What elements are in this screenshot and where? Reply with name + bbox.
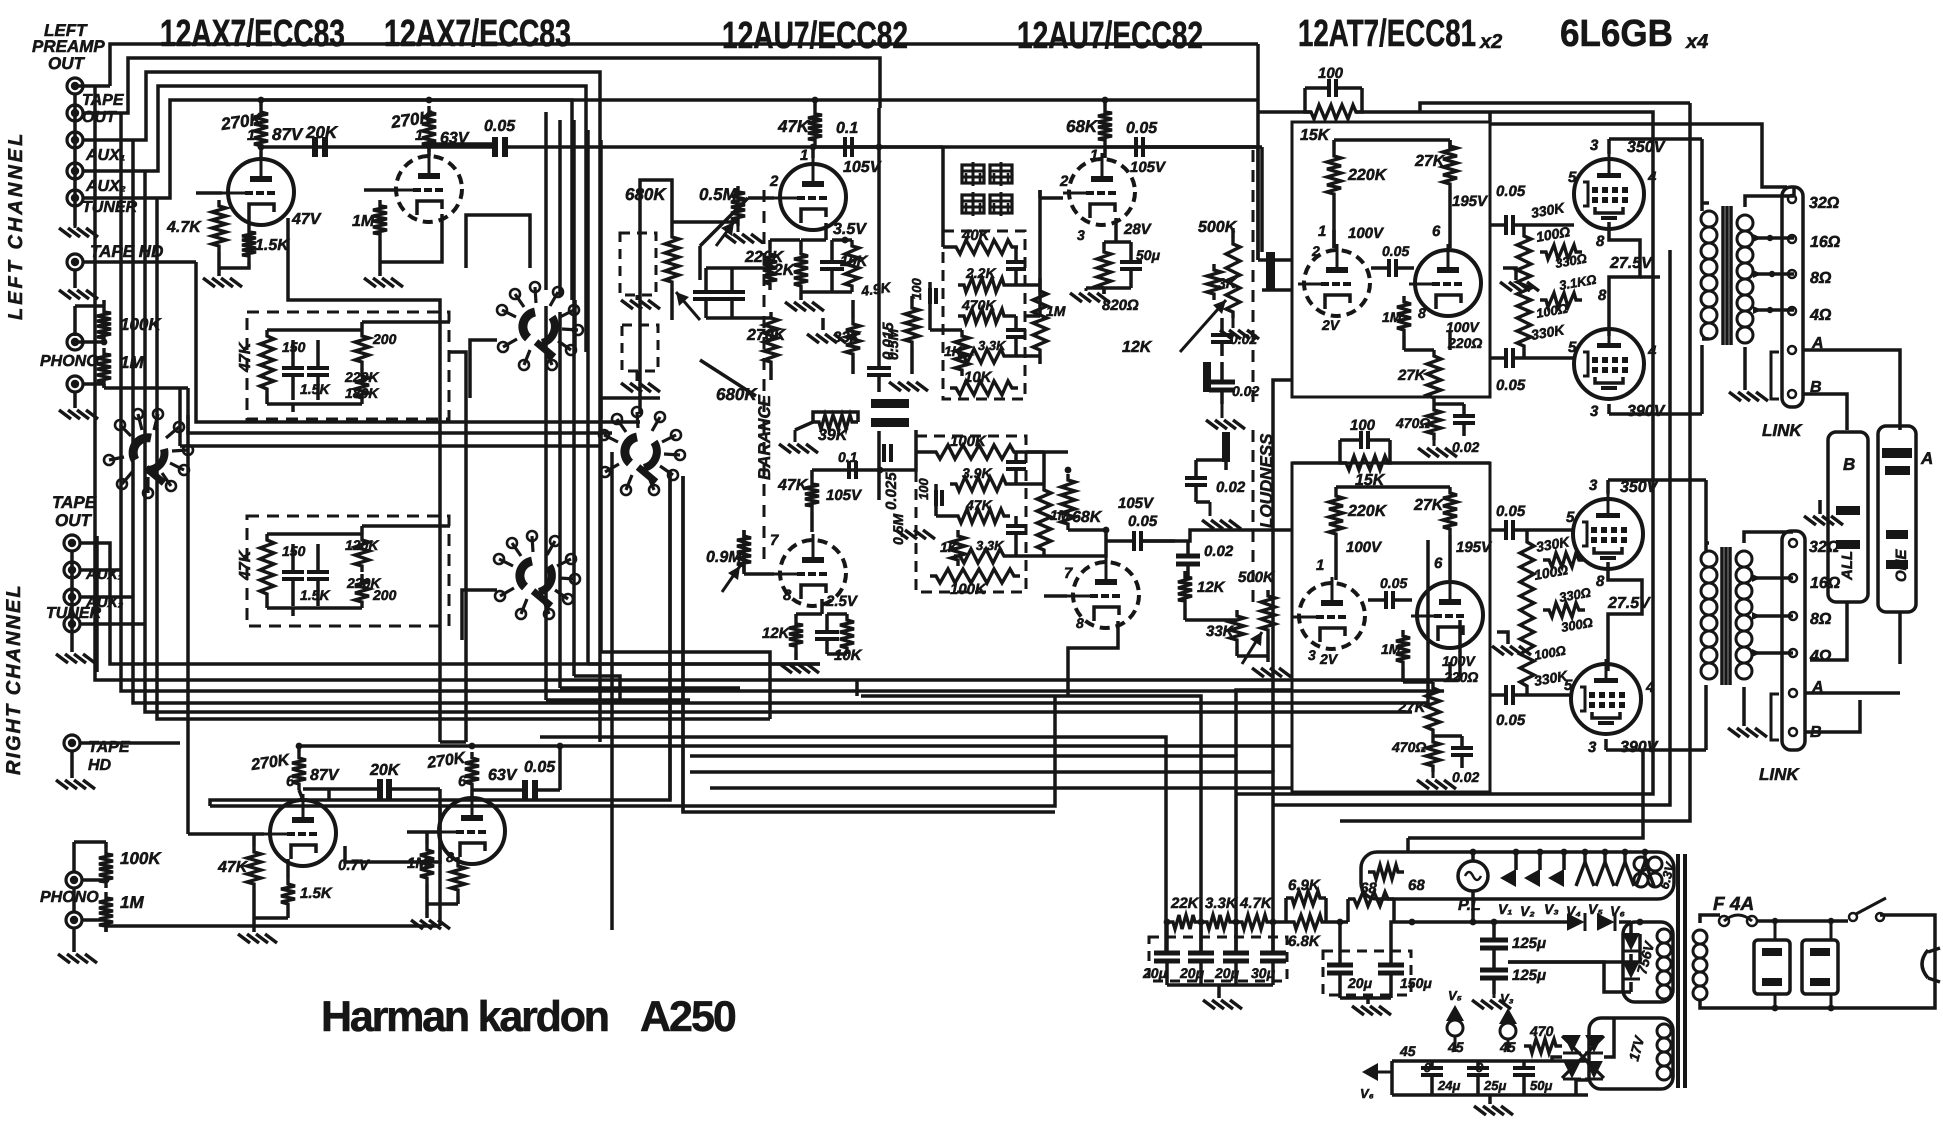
svg-text:V₂: V₂ [1520,903,1535,919]
resistor ladder upper [1517,230,1531,352]
cap 0.05 OG4 [1490,685,1527,705]
resistor 1K U [955,330,969,376]
svg-text:8: 8 [1418,305,1426,321]
ground 39K [779,422,818,453]
label 47V [291,211,322,228]
junction dot 8 [296,743,303,750]
svg-text:TAPE: TAPE [82,92,125,109]
dashed box tone R [247,516,449,626]
ground PSD [1417,772,1456,789]
resistor 1M PSU [1397,296,1411,336]
wire rail top [1490,112,1653,190]
label 45 a [1399,1043,1416,1059]
wire pot to 12AU7 upper [698,246,702,280]
label 220K PSD [1347,503,1388,520]
resistor 1M phono L [97,348,111,388]
wire right tape bus 3 [79,595,133,599]
wire 17V loop [1576,1080,1589,1095]
resistor ld h1 [1543,553,1585,567]
wire phono R gnd lead [72,927,76,952]
label 27.5V u [1609,255,1653,272]
svg-text:3K: 3K [1218,275,1237,291]
cap 150 tone L [282,340,304,400]
svg-text:87V: 87V [310,767,340,784]
label 330K lu1 [1530,199,1567,221]
pot 500K loudness [1180,238,1240,352]
svg-text:10K: 10K [840,253,869,270]
junction dot 22 [1561,849,1568,856]
ground OT2 [1728,728,1767,737]
label 270K V4b [425,750,468,772]
resistor 22K psu [1167,915,1201,929]
label V5 [1588,901,1603,917]
ground tsU [889,382,928,391]
svg-text:0.5M: 0.5M [885,329,901,360]
svg-text:220Ω: 220Ω [1447,335,1482,351]
label RIGHT CHANNEL [3,583,25,775]
OT1 core [1723,206,1731,345]
label 0.02 PSD [1452,769,1479,785]
dashed line loudness [1252,150,1255,410]
resistor 3K loud [1207,264,1221,300]
svg-text:100V: 100V [1442,653,1476,669]
ground panel [1804,500,1843,525]
junction dot 17 [1470,919,1477,926]
junction dot 11 [1164,919,1171,926]
terminal strip lower [1782,531,1805,750]
cap 100 upper [1305,79,1362,97]
svg-text:12AX7/ECC83: 12AX7/ECC83 [160,13,345,55]
label 17V [1625,1033,1647,1063]
wire wafer drop 3 [574,676,620,703]
label V4 [1566,903,1581,919]
label 87V V4a [310,767,340,784]
ground phono L [59,410,98,419]
label 220K PSU [1347,167,1388,184]
svg-text:220K: 220K [344,369,379,385]
wire tsU feed [879,147,950,247]
svg-text:7: 7 [1064,565,1073,582]
svg-text:x4: x4 [1685,31,1708,53]
wire V4a out [345,789,440,862]
junction dot 2 [426,97,433,104]
label 0.05 OG4 [1496,712,1526,729]
wire bus vertical b [558,120,562,296]
label 2.2K U [965,265,996,281]
resistor 1M V1b grid [373,200,387,240]
label 15K upper [1300,127,1331,144]
wire 15K feed lower [1292,461,1490,465]
wire caps2 gnd [1340,998,1391,1004]
ground ladder u [1500,268,1539,291]
cap 0.05 V3b [1106,531,1175,551]
resistor 4.7K psu [1236,915,1273,929]
label 6L6GB x4 [1560,13,1708,55]
wire V1a cathode [219,218,249,268]
resistor 270K V1a plate [254,106,268,152]
ground caps2 [1352,1006,1391,1015]
label 10K b [834,647,863,664]
svg-text:TUNER: TUNER [46,605,102,622]
bracket AB lower [1771,694,1779,740]
label 40K U [961,227,991,244]
label 100 lu1 [1535,223,1572,245]
svg-text:32Ω: 32Ω [1809,539,1840,556]
label AUX1 (L) [85,147,125,164]
svg-text:105V: 105V [826,487,863,504]
label 0.05 V2b [1126,120,1158,137]
resistor 270K V4a [292,752,306,790]
wire 68 loop [1348,899,1394,922]
svg-text:F 4A: F 4A [1713,894,1754,915]
svg-text:24μ: 24μ [1437,1078,1460,1093]
pot 0.5M L [716,186,745,246]
label 3.3K U [978,338,1007,353]
svg-text:8: 8 [1076,615,1084,631]
resistor 47K tone L [260,330,274,395]
wire tsU left [912,296,962,374]
wire V3b cath [1068,621,1118,696]
svg-text:0.025: 0.025 [883,472,900,510]
resistor 1M V4b [420,844,434,884]
svg-text:20μ: 20μ [1214,965,1240,981]
wire 33K a [851,300,855,374]
wire wafer link [573,300,577,352]
svg-text:0.05: 0.05 [1496,183,1526,200]
wire vbus 2 [558,312,562,688]
label 100V 220 PSU [1446,319,1482,351]
label 1K D [940,539,959,555]
svg-text:32Ω: 32Ω [1809,195,1840,212]
wire V1b grid [364,190,396,268]
svg-text:12K: 12K [1122,339,1153,356]
label TUNER (L) [82,199,138,216]
svg-text:22K: 22K [1170,895,1200,912]
dashed line BARANCE [763,190,766,560]
junction dot 28 [1065,467,1072,474]
svg-text:8Ω: 8Ω [1810,611,1832,628]
ground pot Lb [621,371,660,392]
label 330 lu [1554,251,1588,271]
label 0.9M [859,279,892,299]
label 2V PSD [1319,651,1339,667]
label V6 bias [1360,1086,1374,1101]
label 0.02 a [1230,331,1257,347]
label 100 lu2 [1535,301,1569,321]
svg-text:1: 1 [247,127,255,144]
wire mid connect b [210,470,670,806]
wire V2b grid riser [1038,190,1042,316]
svg-text:BARANCE: BARANCE [755,394,774,480]
svg-text:27K: 27K [1397,699,1427,716]
svg-text:100K: 100K [950,581,987,598]
junction dot 35 [1772,1005,1779,1012]
label 390V b [1627,403,1666,420]
cap 0.02 b [1209,362,1235,404]
svg-text:47K: 47K [777,117,811,136]
label 20u f3 [1214,965,1240,981]
label 47K V4a [217,859,249,876]
label 100 ld1 [1533,561,1570,583]
ground ladder d [1492,632,1531,655]
svg-text:6: 6 [458,773,467,790]
cap 20K coupling [312,137,328,157]
OT1 primary [1701,211,1717,339]
resistor 33K a [846,318,860,360]
label 32ohm u [1809,195,1840,212]
label 8ohm d [1810,611,1832,628]
svg-text:470Ω: 470Ω [1391,739,1426,755]
resistor 68K V2b [1098,106,1112,146]
label 39K [818,427,849,444]
label 12K arrow [1122,339,1153,356]
wire ladder d [1525,530,1529,695]
wire OT2 leads [1706,480,1709,750]
tube V6a 12AT7 [1293,577,1365,649]
wire lower long 1 [540,737,1166,952]
label 200 tone R [372,587,397,603]
svg-text:3: 3 [1588,739,1597,756]
wire vbus 4 [586,130,590,664]
label pin6 PSU [1432,223,1441,240]
svg-text:20μ: 20μ [1142,965,1168,981]
junction dot 23 [1582,849,1589,856]
wire bias rail [1392,1061,1588,1095]
label 195V D [1456,539,1493,556]
label 1M D [1050,507,1070,523]
svg-text:125μ: 125μ [1512,935,1546,952]
terminal TUNER R [64,616,80,632]
resistor 1M PSD [1396,630,1410,668]
cap 0.1 lower [849,461,856,479]
wire 6L6d plate [1606,739,1706,750]
ground V3a [780,664,819,673]
terminal PHONO R2 [66,912,82,928]
lug bar loud2 [1203,362,1211,392]
label pin5 6L6a [1568,169,1577,186]
wire grid V2b [1040,190,1063,198]
resistor 3.3K D [954,549,1010,563]
wire top bus 2 [82,58,880,113]
svg-text:1K: 1K [940,539,959,555]
cap 0.05 OG1 [1490,215,1527,235]
resistor lu h1 [1540,245,1582,259]
wire phono feed to wafer [188,388,612,433]
label 0.7V [338,857,371,874]
diode heater a [1567,913,1585,931]
label 47K tone R [237,549,254,581]
wire lower long 7 [710,786,1292,790]
zig heater 2 [1596,852,1614,886]
junction dot 9 [469,743,476,750]
wire mid bus 5 [157,198,770,719]
label 8ohm u [1810,270,1832,287]
label 12AU7/ECC82 (1) [722,15,908,57]
cap 0.05 PSD [1368,591,1412,609]
wire 15K to box [1258,112,1490,122]
label 63V V4b [488,767,518,784]
label pin1 PSD [1316,557,1324,574]
svg-text:100V: 100V [1348,225,1385,242]
label 87V V1a [272,125,304,144]
OT2 core [1722,547,1730,685]
svg-text:3.9K: 3.9K [962,465,992,481]
ground phono R [58,954,97,963]
label V1 [1498,901,1512,917]
label 3.9K D [962,465,992,481]
svg-text:0.05: 0.05 [1496,377,1526,394]
dashed box tonestack D [916,436,1026,592]
svg-text:0.05: 0.05 [1128,513,1158,530]
label pin3 PSD [1308,647,1316,663]
lug bar a [871,399,909,408]
tube 6L6 no3 [1573,494,1643,569]
ground OT1 [1729,392,1768,401]
label 22K psu [1170,895,1200,912]
svg-text:5: 5 [1564,677,1573,694]
label 1.5K V1a [255,237,290,254]
wire mid connect a [683,476,1055,812]
wire loud top [1175,147,1262,238]
wire phono R [74,806,440,932]
tube V5b 12AT7 [1409,244,1481,316]
wire feedback top [1420,103,1690,112]
diode HV a [1622,933,1640,951]
ground tape hd R [56,780,95,789]
dashed box caps1 [1149,937,1287,981]
svg-text:87V: 87V [272,125,304,144]
svg-text:40K: 40K [961,227,991,244]
resistor 200 tone R [355,574,369,608]
label 47K tone L [237,341,254,373]
pot 500K D [1242,590,1275,664]
resistor 1M D [1037,484,1051,556]
svg-text:LEFT CHANNEL: LEFT CHANNEL [5,131,27,320]
svg-text:TAPE HD: TAPE HD [90,242,163,261]
label pin5 6L6c [1566,509,1575,526]
svg-text:1.5K: 1.5K [300,587,330,603]
label 32ohm d [1809,539,1840,556]
svg-text:2.5V: 2.5V [825,593,859,610]
label 0.025 rot [883,472,900,510]
label LEFT CHANNEL [5,131,27,320]
wire V2b top [880,100,1258,158]
label 1.5K tone R [300,587,330,603]
label 1K U [944,343,963,359]
label 10K a [840,253,869,270]
tube 6L6 no2 [1574,324,1644,399]
svg-text:150: 150 [282,339,306,355]
tube V3b 12AU7 lower [1067,556,1139,628]
svg-text:1.5K: 1.5K [300,381,330,397]
terminal AUX1 L [67,132,83,148]
svg-text:1M: 1M [1046,303,1066,319]
svg-text:LINK: LINK [1762,421,1803,440]
svg-text:3.5V: 3.5V [833,221,867,238]
wire mid bus 4 [145,171,1412,712]
label 756V [1633,938,1657,975]
cap 125u b [1480,962,1508,994]
junction dot 30 [1103,527,1110,534]
wire tapehd feed to wafer [196,415,640,422]
label 47K V3a [777,477,809,494]
label 100K (R) [120,849,162,868]
label pin8 PSU [1418,305,1426,321]
junction dot 18 [1491,919,1498,926]
svg-text:0.02: 0.02 [1216,479,1246,496]
label pin1 12AU7a [800,147,808,164]
wire ps upper left [1273,380,1292,772]
wire 4.7K gnd [217,252,221,276]
label 0.9M [706,549,742,566]
label TUNER (R) [46,605,102,622]
svg-text:OUT: OUT [48,54,86,73]
wire tone R inner [267,526,450,616]
label pin3 PSU [1311,243,1320,259]
svg-text:4Ω: 4Ω [1809,307,1832,324]
label pin6 V4b [458,773,467,790]
label 680K L [625,185,667,204]
label 20u g1 [1347,975,1373,991]
label 12AU7/ECC82 (2) [1017,15,1203,57]
resistor 220K PSD [1329,490,1343,540]
label 16ohm u [1810,234,1841,251]
cap 0.02 c [1185,460,1207,502]
svg-text:39K: 39K [818,427,849,444]
resistor lu h2 [1540,293,1582,307]
wire PT primary loop [1700,915,1935,1008]
label 270K V4a [249,752,292,774]
svg-text:47K: 47K [237,549,254,581]
junction dot 6 [426,141,433,148]
resistor 270K V1b plate [422,106,436,152]
label 270K V1a [219,109,265,134]
wire mid bus 6 [95,536,99,672]
svg-text:470Ω: 470Ω [1395,415,1430,431]
wire psu chain [1273,920,1348,924]
cap tsD 2 [1006,516,1026,556]
label 0.1 lower [838,449,858,465]
label 100K D1 [950,433,987,450]
svg-text:100V: 100V [1346,539,1383,556]
wire lower coupling to box [1141,530,1292,541]
label 1M (L) [120,353,144,372]
ground V2b [1070,288,1109,302]
svg-text:270K: 270K [746,327,787,344]
label A d [1811,679,1824,696]
label 3.3K D [976,538,1005,553]
wire wafer drop 4 [588,662,820,666]
label 100 upper [1318,65,1344,82]
pot 680K L [665,231,700,320]
junction dot 27 [876,144,883,151]
label V6 [1610,903,1625,919]
dashed box tonestack U [943,231,1025,399]
label 68 b [1360,880,1377,897]
OT2 secondary [1736,551,1752,679]
terminal TAPE OUT R [64,535,80,551]
cap 30u f4 [1260,922,1286,985]
junction dot 21 [1537,849,1544,856]
lug bar c [1222,432,1230,462]
svg-text:3.3K: 3.3K [976,538,1005,553]
svg-text:45: 45 [1447,1039,1464,1055]
label 105V c [826,487,863,504]
label 0.05 V1b [484,118,516,135]
cap pot L2 [719,268,745,318]
dashed box pot La [620,233,656,295]
svg-text:ONE: ONE [1893,549,1910,583]
